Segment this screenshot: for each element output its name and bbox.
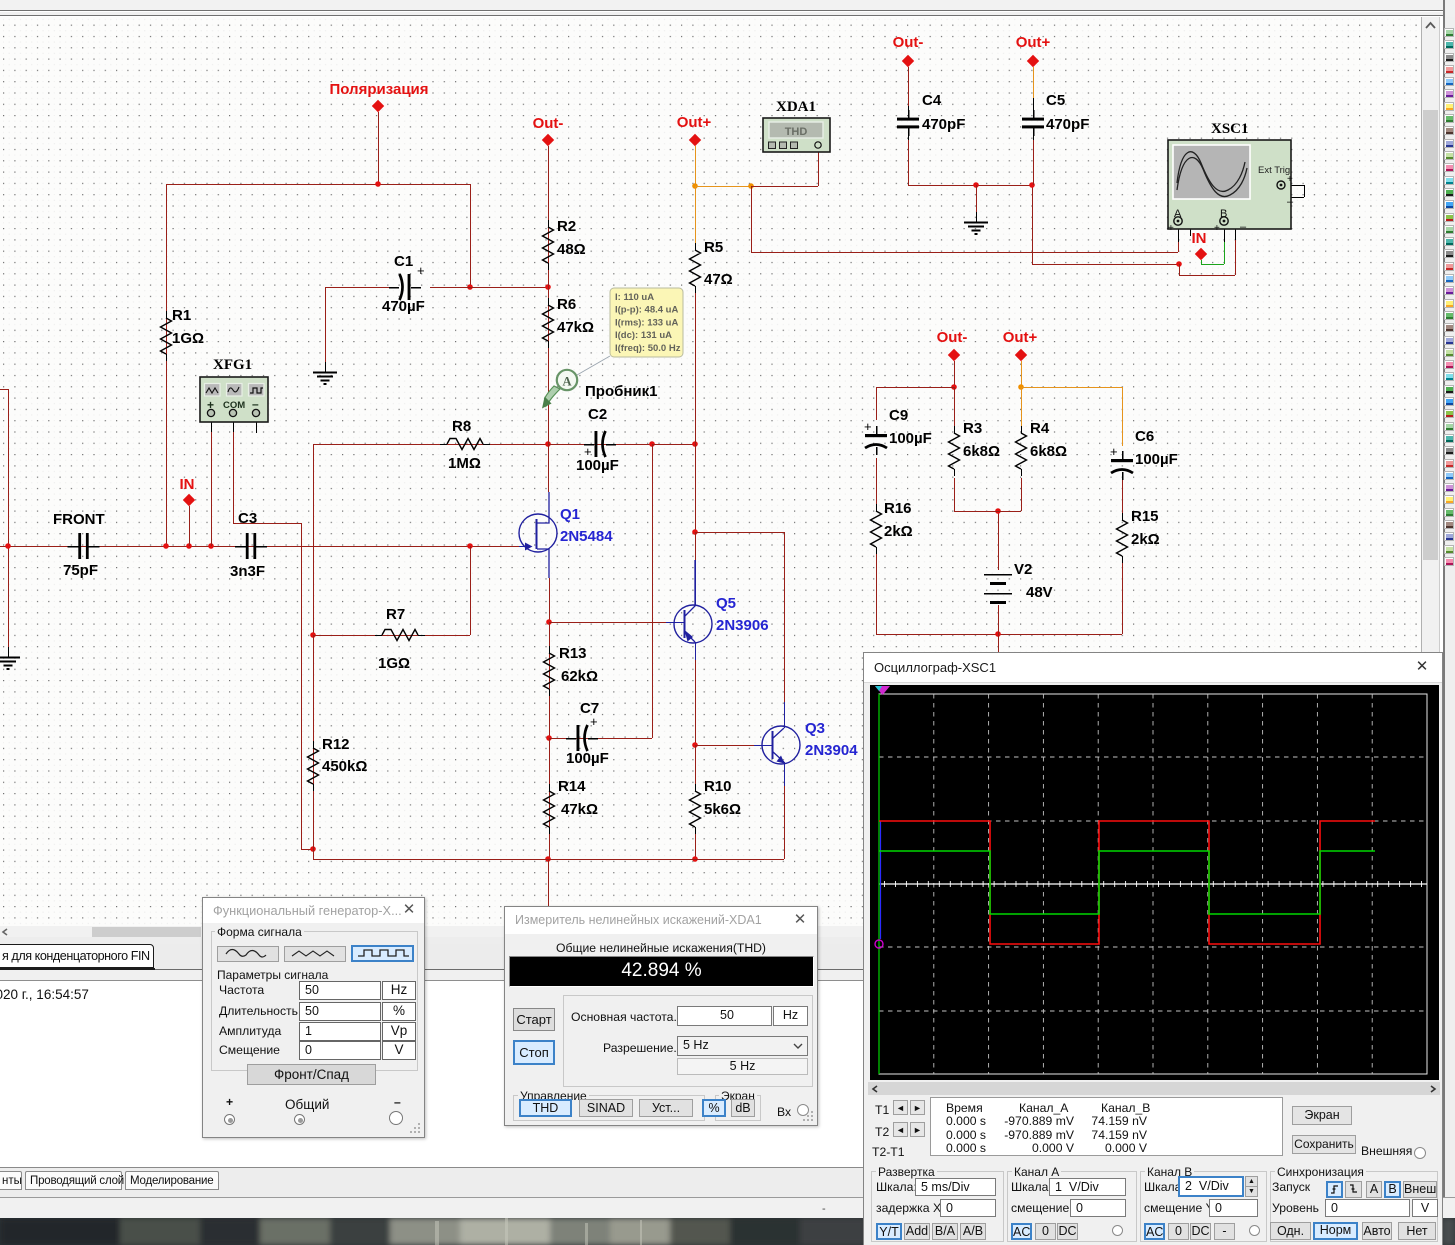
svg-text:I(rms): 133 uA: I(rms): 133 uA	[615, 317, 678, 328]
svg-text:I(p-p): 48.4 uA: I(p-p): 48.4 uA	[615, 305, 678, 316]
svg-text:R13: R13	[559, 645, 587, 662]
svg-text:100µF: 100µF	[1135, 451, 1178, 468]
svg-text:R10: R10	[704, 778, 732, 795]
svg-text:47Ω: 47Ω	[704, 271, 733, 288]
svg-text:R3: R3	[963, 420, 982, 437]
svg-text:Q3: Q3	[805, 720, 825, 737]
svg-text:R16: R16	[884, 500, 912, 517]
svg-text:Пробник1: Пробник1	[585, 383, 658, 400]
svg-text:100µF: 100µF	[889, 430, 932, 447]
svg-text:THD: THD	[785, 126, 808, 138]
svg-text:+: +	[1287, 174, 1293, 185]
svg-text:C2: C2	[588, 406, 607, 423]
svg-text:R5: R5	[704, 239, 723, 256]
svg-text:XDA1: XDA1	[776, 99, 816, 115]
svg-text:Out+: Out+	[1016, 34, 1051, 51]
svg-text:R1: R1	[172, 307, 191, 324]
svg-text:Out+: Out+	[1003, 329, 1038, 346]
svg-text:+: +	[1214, 223, 1220, 234]
svg-text:C5: C5	[1046, 92, 1065, 109]
svg-text:2N5484: 2N5484	[560, 528, 613, 545]
svg-text:1GΩ: 1GΩ	[172, 330, 204, 347]
svg-text:470pF: 470pF	[1046, 116, 1089, 133]
svg-text:6k8Ω: 6k8Ω	[963, 443, 1000, 460]
svg-text:–: –	[1240, 221, 1247, 233]
svg-text:R4: R4	[1030, 420, 1050, 437]
svg-text:3n3F: 3n3F	[230, 563, 265, 580]
svg-text:1MΩ: 1MΩ	[448, 455, 481, 472]
svg-text:Q1: Q1	[560, 506, 580, 523]
svg-text:C4: C4	[922, 92, 942, 109]
svg-text:R2: R2	[557, 218, 576, 235]
svg-text:47kΩ: 47kΩ	[561, 801, 598, 818]
svg-text:FRONT: FRONT	[53, 511, 105, 528]
svg-text:Out-: Out-	[893, 34, 924, 51]
svg-text:C3: C3	[238, 510, 257, 527]
svg-text:100µF: 100µF	[566, 750, 609, 767]
svg-text:Out+: Out+	[677, 114, 712, 131]
svg-text:XSC1: XSC1	[1211, 121, 1249, 137]
svg-text:+: +	[1110, 444, 1118, 459]
svg-text:Out-: Out-	[937, 329, 968, 346]
svg-text:2kΩ: 2kΩ	[1131, 531, 1160, 548]
svg-text:48V: 48V	[1026, 584, 1053, 601]
svg-text:IN: IN	[180, 476, 195, 493]
svg-text:47kΩ: 47kΩ	[557, 319, 594, 336]
svg-text:450kΩ: 450kΩ	[322, 758, 367, 775]
svg-text:48Ω: 48Ω	[557, 241, 586, 258]
svg-text:–: –	[1287, 196, 1294, 208]
svg-text:R8: R8	[452, 418, 471, 435]
svg-text:Q5: Q5	[716, 595, 736, 612]
svg-text:I(freq): 50.0 Hz: I(freq): 50.0 Hz	[615, 343, 681, 354]
svg-text:+: +	[1168, 223, 1174, 234]
svg-text:6k8Ω: 6k8Ω	[1030, 443, 1067, 460]
svg-text:75pF: 75pF	[63, 562, 98, 579]
svg-text:2kΩ: 2kΩ	[884, 523, 913, 540]
svg-text:C6: C6	[1135, 428, 1154, 445]
svg-text:V2: V2	[1014, 561, 1032, 578]
svg-text:R6: R6	[557, 296, 576, 313]
svg-text:2N3906: 2N3906	[716, 617, 769, 634]
svg-text:470µF: 470µF	[382, 298, 425, 315]
svg-text:Ext Trig: Ext Trig	[1258, 165, 1290, 176]
svg-text:I: 110 uA: I: 110 uA	[615, 292, 654, 303]
svg-text:R7: R7	[386, 606, 405, 623]
svg-text:5k6Ω: 5k6Ω	[704, 801, 741, 818]
svg-text:R15: R15	[1131, 508, 1159, 525]
svg-text:+: +	[417, 263, 425, 278]
svg-text:C7: C7	[580, 700, 599, 717]
svg-text:1GΩ: 1GΩ	[378, 655, 410, 672]
svg-text:470pF: 470pF	[922, 116, 965, 133]
svg-text:I(dc): 131 uA: I(dc): 131 uA	[615, 330, 672, 341]
svg-text:100µF: 100µF	[576, 457, 619, 474]
svg-text:2N3904: 2N3904	[805, 742, 858, 759]
svg-text:XFG1: XFG1	[213, 357, 252, 373]
svg-text:Out-: Out-	[533, 115, 564, 132]
svg-text:A: A	[562, 375, 571, 389]
svg-text:IN: IN	[1192, 230, 1207, 247]
svg-text:C1: C1	[394, 253, 413, 270]
svg-text:R12: R12	[322, 736, 350, 753]
svg-text:+: +	[864, 419, 872, 434]
svg-text:Поляризация: Поляризация	[329, 81, 428, 98]
svg-text:62kΩ: 62kΩ	[561, 668, 598, 685]
svg-text:C9: C9	[889, 407, 908, 424]
svg-text:R14: R14	[558, 778, 586, 795]
